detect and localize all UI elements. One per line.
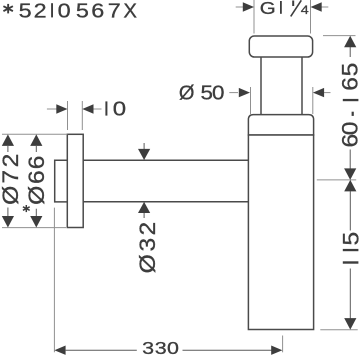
cup body — [248, 135, 313, 330]
extension line nut top right — [323, 35, 356, 37]
wire vertical pipe left edge — [260, 57, 262, 115]
svg-text:4: 4 — [301, 3, 309, 17]
svg-text:0: 0 — [167, 339, 179, 355]
svg-text:2: 2 — [0, 154, 23, 168]
svg-text:5: 5 — [338, 63, 360, 77]
wire horizontal inlet pipe top — [83, 159, 248, 161]
extension line d50 left — [250, 87, 252, 114]
top nut — [249, 36, 312, 57]
article number label * 5210567X — [3, 0, 137, 22]
svg-text:Ø: Ø — [135, 254, 159, 273]
svg-text:5: 5 — [19, 0, 32, 22]
extension line 10 left — [67, 101, 69, 130]
extension line G thread left — [253, 0, 255, 34]
extension line d50 right — [312, 87, 314, 114]
dimension 330 — [54, 339, 282, 355]
dimension 60-165 — [338, 36, 360, 180]
svg-text:5: 5 — [339, 232, 360, 246]
svg-text:0: 0 — [338, 121, 360, 135]
svg-text:Ø: Ø — [0, 186, 23, 205]
svg-text:3: 3 — [155, 339, 167, 355]
wall flange — [67, 134, 83, 227]
extension line pipe centerline right — [317, 179, 356, 181]
extension line flange bottom left — [2, 227, 66, 229]
svg-text:2: 2 — [34, 0, 47, 22]
wire horizontal inlet pipe bottom — [83, 201, 248, 203]
svg-text:6: 6 — [91, 0, 104, 22]
dimension 115 — [339, 180, 360, 330]
extension line flange top left — [2, 133, 67, 135]
dimension G1 1/4 — [236, 0, 329, 18]
extension line G thread right — [310, 0, 312, 34]
svg-text:7: 7 — [108, 0, 121, 22]
extension line cup bottom right — [320, 329, 357, 331]
svg-text:0: 0 — [58, 0, 71, 22]
svg-text:3: 3 — [142, 339, 154, 355]
collar nut — [248, 115, 313, 135]
svg-text:Ø: Ø — [24, 186, 48, 205]
svg-text:3: 3 — [135, 238, 159, 252]
wire vertical pipe right edge — [301, 57, 303, 115]
dimension d50 — [179, 83, 331, 105]
svg-text:5: 5 — [76, 0, 89, 22]
svg-text:7: 7 — [0, 170, 23, 184]
dimension d66 — [23, 134, 49, 227]
svg-text:0: 0 — [113, 97, 126, 120]
dimension d72 — [0, 134, 23, 227]
svg-text:6: 6 — [338, 134, 360, 148]
svg-text:Ø: Ø — [179, 83, 195, 105]
svg-text:6: 6 — [338, 77, 360, 91]
wire inlet pipe stub behind flange — [55, 160, 68, 202]
svg-text:G: G — [260, 0, 276, 18]
dimension 10 — [47, 97, 126, 120]
extension line 10 right — [81, 101, 83, 130]
svg-text:X: X — [123, 1, 137, 23]
svg-text:6: 6 — [24, 170, 48, 184]
extension line wall vertical — [53, 208, 55, 353]
dimension d32 — [135, 143, 159, 273]
extension line cup center vertical — [282, 336, 284, 353]
svg-text:6: 6 — [24, 156, 48, 170]
svg-text:0: 0 — [212, 83, 224, 105]
svg-text:2: 2 — [135, 222, 159, 236]
